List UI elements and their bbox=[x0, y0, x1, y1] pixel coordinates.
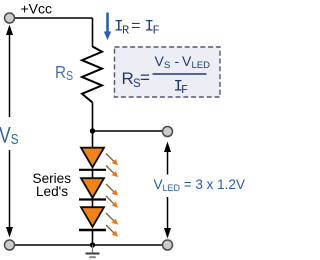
VLED dimension arrow lower segment with down arrowhead bbox=[164, 197, 171, 239]
LED D2 triangle bbox=[81, 178, 104, 198]
svg-text:Led's: Led's bbox=[36, 184, 68, 199]
ground symbol bbox=[86, 245, 100, 257]
LED D1 triangle bbox=[81, 148, 104, 168]
VS dimension arrow lower segment with down arrowhead bbox=[6, 150, 13, 238]
svg-text:+Vcc: +Vcc bbox=[21, 1, 53, 17]
LED2 emission arrow b bbox=[106, 196, 118, 208]
VS dimension arrow upper segment with up arrowhead bbox=[6, 25, 13, 118]
VLED dimension arrow upper segment with up arrowhead bbox=[164, 142, 171, 175]
wire LED1 to LED2 bbox=[92, 170, 94, 178]
node junction dot above LEDs bbox=[90, 128, 95, 133]
node junction dot bottom bbox=[90, 242, 95, 247]
LED3 emission arrow a bbox=[106, 213, 118, 225]
svg-text:IR=IF: IR=IF bbox=[114, 18, 160, 38]
blue current arrow IR into resistor bbox=[104, 13, 111, 41]
wire vertical resistor top lead bbox=[92, 18, 94, 47]
wire vertical resistor bottom lead bbox=[92, 103, 94, 132]
wire vertical node to LED1 bbox=[92, 131, 94, 147]
wire LED3 to bottom rail bbox=[92, 230, 94, 245]
LED D2 cathode bar bbox=[79, 198, 106, 200]
LED1 emission arrow a bbox=[106, 154, 118, 166]
terminal mid-right bbox=[163, 127, 173, 137]
wire horizontal from node to right mid terminal bbox=[93, 130, 163, 132]
formula RS = (VS - VLED)/IF bbox=[122, 53, 211, 97]
label VS bbox=[0, 124, 19, 148]
label RS beside resistor bbox=[55, 62, 73, 83]
resistor RS zigzag bbox=[82, 47, 102, 103]
terminal top-left +Vcc bbox=[5, 13, 15, 23]
terminal bottom-left bbox=[5, 240, 15, 250]
wire LED2 to LED3 bbox=[92, 200, 94, 207]
terminal bottom-right bbox=[163, 240, 173, 250]
LED D1 cathode bar bbox=[79, 169, 106, 171]
wire bottom rail bbox=[14, 244, 163, 246]
LED D3 cathode bar bbox=[79, 229, 106, 231]
LED3 emission arrow b bbox=[106, 225, 118, 237]
LED D3 triangle bbox=[81, 207, 104, 227]
wire top horizontal from +Vcc terminal to resistor bbox=[14, 17, 93, 19]
formula dashed box bbox=[115, 47, 221, 97]
LED1 emission arrow b bbox=[106, 166, 118, 178]
LED2 emission arrow a bbox=[106, 184, 118, 196]
